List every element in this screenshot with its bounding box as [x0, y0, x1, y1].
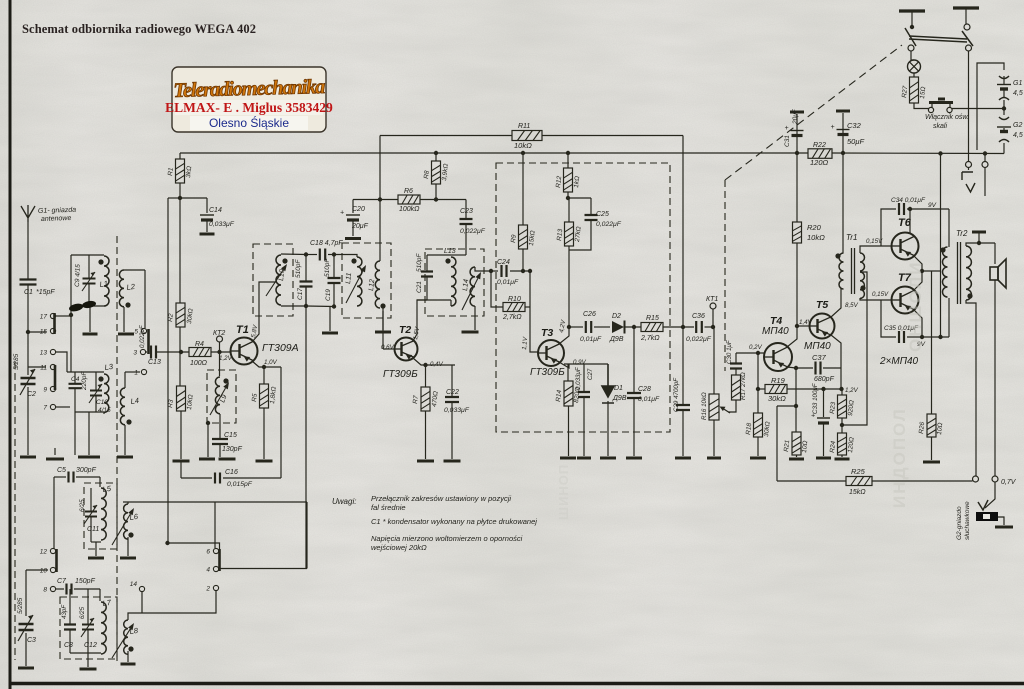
svg-text:R25: R25	[851, 467, 866, 476]
svg-text:Teleradiomechanika: Teleradiomechanika	[173, 76, 325, 102]
stub	[971, 480, 974, 482]
switch contact 8	[43, 586, 55, 593]
wire C36 to pot	[705, 326, 715, 328]
svg-text:C13: C13	[148, 359, 161, 366]
wire ground stem L10 area	[329, 307, 331, 332]
wire R24 bottom	[841, 455, 843, 457]
wire tap to G2	[1003, 109, 1005, 116]
junction C24 left	[489, 269, 493, 273]
capacitor C1	[20, 280, 37, 285]
ground under R18	[750, 457, 766, 460]
svg-text:ELMAX- E . Miglus 3583429: ELMAX- E . Miglus 3583429	[165, 100, 333, 115]
svg-text:L11: L11	[345, 272, 353, 284]
svg-text:0,01μF: 0,01μF	[580, 336, 602, 343]
svg-text:0,022μF: 0,022μF	[460, 228, 486, 235]
wire T5 collector to Tr1	[831, 288, 841, 317]
svg-text:0,015pF: 0,015pF	[227, 481, 253, 488]
svg-text:680pF: 680pF	[814, 376, 835, 383]
switch contact 12	[40, 548, 56, 555]
wire C21 bottom stem	[426, 277, 428, 300]
ground under C29	[675, 457, 691, 460]
wire T5 emitter down	[831, 335, 841, 389]
inductor L2	[119, 270, 124, 307]
ground under R7	[417, 460, 434, 463]
svg-text:2×МП40: 2×МП40	[879, 356, 919, 367]
svg-text:3: 3	[133, 350, 137, 357]
wire C15 to ground	[219, 444, 221, 457]
wire L14 top to C24 line	[475, 267, 491, 271]
wire C9 bottom stub	[88, 284, 90, 306]
Tr2 core line 2	[960, 242, 962, 304]
wire feedback stub	[777, 405, 796, 407]
wire C4 down to ground	[74, 388, 76, 455]
resistor R15	[641, 323, 663, 332]
svg-text:14: 14	[130, 581, 138, 588]
wire C19 bottom stem	[333, 284, 335, 307]
svg-text:15kΩ: 15kΩ	[849, 489, 866, 496]
resistor R27	[910, 77, 919, 103]
resistor R6	[398, 195, 420, 204]
svg-text:R21: R21	[783, 439, 791, 452]
wire jack to ground	[998, 517, 1004, 525]
svg-text:11: 11	[40, 365, 47, 372]
wire C10 bottom stub	[95, 396, 97, 412]
stamp box Teleradiomechanika	[165, 67, 333, 132]
wire R12 top	[567, 153, 569, 168]
inductor L1	[104, 256, 109, 306]
wire L4 top to contact1	[125, 371, 140, 373]
wire to Tr2 primary top	[948, 209, 950, 247]
dashed shield partition	[116, 236, 118, 665]
wire T4 emitter	[787, 367, 796, 368]
wire R8 top	[435, 153, 437, 161]
wire L7 bottom	[70, 652, 101, 654]
transistor T7 МП40	[892, 287, 919, 314]
junction C1/C2	[26, 330, 30, 334]
junction R7 top	[423, 363, 427, 367]
svg-text:D2: D2	[612, 313, 621, 320]
inductor L12	[375, 261, 380, 308]
svg-text:0,01μF: 0,01μF	[638, 396, 660, 403]
diode D2 Д9В	[612, 321, 641, 334]
battery G1	[997, 76, 1011, 100]
ground above Tr2	[972, 231, 986, 234]
wire pot to ground	[713, 420, 715, 456]
wire T3 emitter	[559, 362, 569, 368]
dashed tuning gang link left	[14, 362, 16, 660]
svg-text:C31: C31	[784, 135, 791, 147]
svg-text:+: +	[831, 124, 835, 131]
svg-text:C19: C19	[325, 289, 332, 301]
junction node C14	[178, 196, 182, 200]
junction AGC takeoff	[681, 325, 685, 329]
svg-text:0,033μF: 0,033μF	[575, 366, 582, 390]
svg-text:skali: skali	[933, 123, 947, 130]
wire AGC vertical x683	[682, 136, 684, 328]
wire R23/R24 link	[841, 418, 843, 433]
svg-text:6: 6	[206, 549, 210, 556]
shield box of L5	[84, 483, 117, 549]
svg-text:G1: G1	[1013, 80, 1022, 87]
wire L6 top right segment	[215, 501, 307, 503]
svg-text:220pF: 220pF	[81, 371, 88, 391]
wire C29 top	[682, 327, 684, 404]
wire to L11 top	[334, 255, 357, 258]
wire C19 top stem	[333, 255, 335, 278]
svg-text:C28: C28	[638, 386, 651, 393]
inductor L14	[470, 267, 475, 306]
wire AGC bus right of R11	[542, 135, 683, 137]
wire to C25	[568, 197, 591, 199]
svg-text:+: +	[785, 125, 789, 132]
svg-text:130pF: 130pF	[222, 446, 243, 453]
wire C17 column down	[305, 287, 307, 569]
svg-text:30kΩ: 30kΩ	[768, 394, 786, 403]
wire pot top stem	[713, 327, 715, 394]
svg-text:4,5: 4,5	[1013, 90, 1023, 97]
transformer Tr1 secondary upper	[860, 253, 865, 271]
ground under jack	[995, 526, 1013, 529]
ground under L5	[88, 557, 104, 560]
Tr1 core line	[851, 248, 853, 294]
wire T4e to R21	[795, 368, 797, 432]
wire C31 stem	[796, 114, 798, 153]
svg-text:ГТ309Б: ГТ309Б	[530, 367, 565, 378]
wire to C37	[796, 367, 813, 369]
Tr2 core line	[957, 242, 959, 304]
wire to jack	[985, 482, 995, 508]
wire to Tr2 center	[922, 270, 941, 272]
wire L5 ground stem	[95, 542, 97, 556]
svg-text:9V: 9V	[928, 202, 937, 209]
switch contact right top	[964, 24, 970, 30]
wire L3 top node	[67, 371, 104, 373]
wire pushbutton to battery tap	[952, 108, 1004, 110]
svg-text:R17 27kΩ: R17 27kΩ	[740, 372, 747, 400]
svg-text:12: 12	[40, 549, 48, 556]
svg-text:C29 4700pF: C29 4700pF	[673, 377, 680, 412]
resistor R13	[565, 222, 574, 246]
switch contact left	[908, 45, 914, 51]
wire to contact 15	[28, 331, 46, 333]
svg-text:4: 4	[206, 567, 210, 574]
wire L5 top stub	[99, 477, 101, 487]
svg-text:2,7kΩ: 2,7kΩ	[640, 335, 660, 342]
capacitor C18	[320, 249, 325, 261]
wire C8 top stem	[69, 589, 71, 624]
svg-text:R1: R1	[167, 167, 175, 176]
stub gnd contact col	[54, 448, 56, 455]
wire C25 bottom	[569, 220, 591, 250]
svg-text:C30 1μF: C30 1μF	[726, 339, 733, 364]
svg-text:3kΩ: 3kΩ	[185, 166, 193, 179]
wire R21 bottom	[796, 455, 798, 457]
wire C17 bottom stem	[305, 287, 307, 306]
svg-text:C11: C11	[87, 526, 99, 533]
svg-text:T3: T3	[541, 327, 553, 339]
capacitor C23	[460, 219, 473, 224]
junction jack right	[983, 151, 987, 155]
transistor T4 МП40	[764, 343, 792, 371]
capacitor C7	[67, 584, 72, 595]
svg-text:43pF: 43pF	[61, 604, 68, 619]
svg-text:R11: R11	[518, 123, 530, 130]
wire stub to C16 line	[180, 461, 182, 478]
switch arm left	[905, 28, 916, 46]
svg-text:17: 17	[40, 314, 48, 321]
inductor L3	[104, 374, 109, 412]
ground under L12	[375, 331, 391, 334]
svg-text:Uwagi:: Uwagi:	[332, 497, 356, 506]
capacitor C35	[899, 331, 904, 343]
jack terminal left	[966, 162, 972, 168]
wire C21 top stem	[426, 261, 428, 271]
svg-text:C7: C7	[57, 578, 67, 585]
ground under L6	[120, 557, 136, 560]
capacitor C19	[328, 278, 341, 283]
wire R23 top	[841, 389, 843, 395]
inductor L10	[276, 255, 281, 305]
wire KT2 stem	[219, 342, 221, 352]
wire L6 top left segment	[123, 501, 215, 503]
wire to T4 base	[736, 352, 764, 354]
svg-text:1kΩ: 1kΩ	[573, 176, 581, 189]
inductor L11	[357, 257, 362, 306]
stub2	[145, 351, 148, 353]
arrow through L14	[462, 272, 481, 310]
svg-text:G2-gniazdo: G2-gniazdo	[956, 506, 963, 540]
wire L4 ground stem	[124, 425, 126, 455]
resistor R12	[564, 168, 573, 192]
ground under L9	[199, 458, 215, 461]
wire T2 collector up	[413, 300, 427, 341]
junction L9 box corner	[206, 421, 210, 425]
potentiometer R16	[709, 394, 719, 420]
junction KT2/L9	[217, 350, 221, 354]
svg-text:10kΩ: 10kΩ	[807, 233, 825, 242]
wire Tr1 sec top to T6 base	[860, 246, 892, 253]
wire contact11 to C2 column	[28, 366, 46, 368]
capacitor C15	[212, 439, 228, 444]
wire G1 lower	[1003, 90, 1005, 98]
wire wiper to R17	[728, 400, 736, 412]
svg-text:C10: C10	[96, 399, 108, 406]
chassis bar above C32	[836, 110, 850, 113]
svg-text:C21: C21	[416, 281, 423, 293]
wire to R5	[263, 367, 265, 384]
svg-text:МП40: МП40	[762, 326, 789, 337]
wire T6 base to C34	[881, 209, 896, 246]
svg-text:КТ1: КТ1	[706, 296, 718, 303]
svg-text:słuchawkowe: słuchawkowe	[964, 501, 971, 540]
wire R8 bottom	[435, 184, 437, 200]
transistor T1 ГТ309А	[231, 338, 258, 365]
svg-text:R23: R23	[829, 401, 837, 414]
junction D2/R15	[632, 325, 636, 329]
speaker	[990, 259, 1006, 288]
wire L1 bottom	[71, 305, 104, 307]
svg-text:2: 2	[205, 586, 210, 593]
wire C4 top stub	[74, 372, 76, 383]
wire AGC bus left of R11	[380, 135, 512, 137]
svg-text:R8: R8	[423, 170, 431, 179]
wire C1 to junction	[27, 285, 29, 333]
trimmer capacitor C12	[81, 618, 94, 637]
svg-text:R19: R19	[771, 376, 786, 385]
wire contact bar 12-10	[55, 549, 58, 572]
svg-text:R26: R26	[918, 421, 926, 434]
junction AGC drop	[378, 197, 382, 201]
notes Uwagi	[332, 494, 537, 552]
svg-text:0,033μF: 0,033μF	[209, 221, 235, 228]
resistor R25	[846, 477, 872, 486]
ground under C3	[18, 667, 34, 670]
wire C8 bottom stem	[69, 630, 71, 653]
svg-text:R4: R4	[195, 341, 204, 348]
wire Tr2 sec bottom down	[966, 300, 976, 476]
ground under L1	[83, 333, 98, 336]
wire T7 base to C35	[881, 300, 896, 337]
resistor R26	[927, 414, 936, 437]
wire C5 right	[76, 476, 100, 478]
svg-text:C20: C20	[352, 206, 365, 213]
svg-text:R10: R10	[508, 296, 521, 303]
wire C11 top stem	[90, 488, 92, 511]
svg-text:R12: R12	[555, 175, 563, 188]
wire to T3 base	[530, 271, 539, 352]
svg-text:C34 0,01μF: C34 0,01μF	[891, 197, 926, 204]
junction T4 emitter	[794, 366, 798, 370]
wire L10 bottom	[281, 305, 306, 307]
svg-text:Przełącznik zakresów ustawiony: Przełącznik zakresów ustawiony w pozycji	[371, 494, 511, 503]
wire C22 top stem	[451, 365, 453, 396]
svg-text:C32: C32	[847, 121, 862, 130]
jack terminal right	[982, 162, 988, 168]
capacitor C32	[831, 124, 850, 135]
wire R1 to R2	[179, 183, 181, 303]
wire T1 collector to L10	[252, 282, 277, 342]
wire T2 emitter right	[413, 358, 455, 365]
wire contact4 right	[218, 568, 307, 570]
Tr1 core line 2	[854, 248, 856, 294]
wire L5 bottom	[91, 541, 101, 543]
wire C5 to contact 12	[53, 477, 55, 549]
svg-text:C4: C4	[71, 376, 80, 383]
svg-text:МП40: МП40	[804, 341, 831, 352]
wire base to L12 bottom	[382, 311, 384, 349]
capacitor C29	[676, 405, 690, 410]
ground under L4	[117, 456, 133, 459]
svg-text:C25: C25	[596, 211, 609, 218]
wire T1 emitter node	[252, 361, 281, 367]
wire T2 base	[383, 348, 394, 350]
wire C28 top	[633, 327, 635, 392]
test point KT1	[710, 303, 716, 309]
svg-text:50μF: 50μF	[847, 137, 864, 146]
shield box of L9	[207, 370, 236, 423]
junction band switch feed	[165, 541, 169, 545]
ground under R14	[560, 457, 576, 460]
wire to C24	[491, 270, 498, 272]
wire C25 top stem	[590, 198, 592, 214]
ground under L8	[121, 663, 136, 666]
wire R7 to ground	[425, 411, 427, 459]
wire battery top feed	[977, 63, 1004, 150]
svg-text:R18: R18	[745, 422, 753, 435]
ground under R16	[707, 457, 721, 460]
junction Tr2 secondary top	[977, 241, 981, 245]
svg-text:ШИНОП: ШИНОП	[556, 464, 571, 520]
wire T4 collector up	[787, 326, 797, 347]
wire x281 down to C16 line	[280, 367, 282, 478]
wire contact7 stub	[56, 406, 70, 408]
wire Tr2 primary bottom down	[948, 298, 950, 337]
svg-text:1,2V: 1,2V	[845, 387, 859, 394]
wire R6 line left	[353, 199, 398, 201]
svg-text:R7: R7	[412, 395, 420, 404]
svg-text:R5: R5	[251, 393, 259, 402]
svg-text:C3: C3	[27, 637, 36, 644]
wire bottom node to C19	[306, 305, 334, 308]
switch contact 9	[43, 386, 55, 393]
lamp	[908, 60, 921, 73]
svg-text:510pF: 510pF	[416, 253, 423, 272]
dashed dial cord diagonal	[725, 45, 902, 180]
wire T6 emitter	[914, 256, 922, 271]
transistor T2 ГТ309Б	[395, 338, 418, 361]
svg-text:100Ω: 100Ω	[190, 360, 208, 367]
svg-text:C16: C16	[225, 469, 238, 476]
svg-text:0,7V: 0,7V	[1001, 479, 1017, 486]
capacitor C31	[785, 125, 804, 136]
svg-text:20μF: 20μF	[351, 223, 369, 230]
transformer Tr2 primary	[943, 247, 948, 297]
wire R10 left leg	[491, 271, 503, 307]
switch contact 2	[205, 585, 218, 592]
wire R10 right	[525, 306, 530, 308]
junction L1 feed	[69, 313, 73, 317]
wire main line to R3	[179, 352, 181, 386]
switch contact 4	[206, 566, 218, 573]
resistor R10	[503, 303, 525, 312]
wire G1 to tap	[1003, 100, 1005, 109]
capacitor C37	[816, 362, 821, 375]
junction switch arm	[910, 25, 914, 29]
stub L11 bottom	[356, 305, 358, 307]
junction R19 left	[756, 387, 760, 391]
resistor R9	[519, 225, 528, 249]
wire R20 top	[796, 153, 798, 222]
wire C27 top	[583, 364, 585, 391]
wire node to x168	[168, 197, 180, 199]
svg-text:4,5: 4,5	[1013, 132, 1023, 139]
ground under contact column	[46, 458, 64, 461]
wire C7 right	[74, 588, 100, 590]
wire contact13 to coil node	[56, 352, 67, 372]
svg-text:5/285: 5/285	[17, 597, 24, 614]
svg-text:L10: L10	[278, 269, 286, 281]
dashed chassis boundary	[724, 180, 726, 371]
svg-text:R24: R24	[829, 440, 837, 453]
wire C12 top stem	[87, 589, 89, 624]
svg-text:C1 * kondensator wykonany na p: C1 * kondensator wykonany na płytce druk…	[371, 517, 537, 526]
stub L3 bottom	[103, 412, 105, 414]
svg-text:10: 10	[40, 568, 48, 575]
stub jack left	[968, 168, 970, 171]
wire R14 top	[567, 364, 569, 381]
wire x307 vertical	[306, 502, 308, 569]
pushbutton terminal left	[928, 107, 933, 112]
